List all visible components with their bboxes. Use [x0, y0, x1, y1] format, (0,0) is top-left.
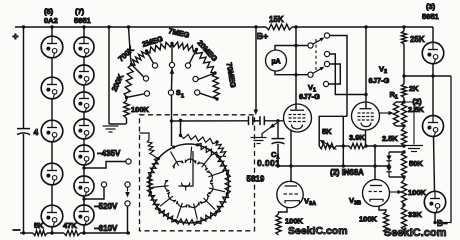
resistor 33K [401, 206, 406, 230]
tube 0A2 #3 [41, 120, 63, 142]
series capacitor 2 [259, 116, 261, 125]
anode cup inside 5819 [182, 183, 190, 187]
dashed enclosure 5819 [140, 115, 255, 231]
tube V1 6J7-G [284, 104, 312, 132]
resistor 5K bottom rail [33, 230, 47, 235]
tube 0A2 #4 [41, 163, 63, 185]
svg-text:33K: 33K [408, 210, 422, 219]
resistor 2MEG [147, 42, 173, 53]
resistor 2.5K lower [401, 128, 406, 146]
svg-text:100K: 100K [131, 105, 150, 114]
tube 5651 #6 [74, 176, 94, 196]
wire rail corner down [432, 27, 434, 42]
svg-text:4: 4 [34, 127, 39, 137]
resistor 50K [401, 152, 406, 177]
switch S1 wiper [171, 44, 173, 63]
tube 5651 right #2 [423, 116, 444, 137]
svg-text:SeekIC.com: SeekIC.com [384, 227, 447, 239]
svg-text:5651: 5651 [74, 16, 91, 25]
tube 5651 right #1 [422, 42, 444, 64]
svg-text:0A2: 0A2 [44, 16, 58, 25]
resistor 3.9K [349, 143, 365, 148]
svg-text:47K: 47K [63, 221, 77, 230]
wire right edge [435, 76, 451, 223]
ground [103, 125, 119, 127]
tube V2 6J7-G [352, 102, 380, 130]
photomultiplier 5819 envelope [150, 144, 229, 223]
fan node dots [125, 96, 128, 99]
svg-text:50K: 50K [409, 159, 423, 168]
tube 5651 #4 [74, 119, 94, 139]
svg-text:25K: 25K [410, 35, 425, 44]
minus terminal [13, 229, 21, 231]
wire bracket to 5K pot [319, 116, 347, 146]
wire left rail [23, 27, 25, 128]
resistor 47K bottom rail [64, 230, 80, 235]
wire bottom rail [20, 232, 33, 234]
wire to ground stem [404, 102, 414, 145]
pin dots on 5819 [157, 157, 160, 160]
svg-text:1: 1 [181, 94, 184, 100]
ground on anode line [262, 131, 266, 138]
resistor 100K input [124, 101, 130, 119]
tube V3B [363, 180, 390, 207]
5K wiper arrow [322, 141, 337, 150]
resistor 200K [124, 65, 133, 98]
resistor 2.5K upper [401, 102, 406, 126]
resistor 100K V3A [276, 214, 281, 235]
svg-text:5651: 5651 [422, 12, 439, 21]
wire 50K top [389, 151, 404, 153]
svg-text:5819: 5819 [247, 175, 265, 184]
svg-text:(7): (7) [75, 7, 85, 16]
meter leads [275, 46, 308, 51]
capacitor 4 [17, 128, 30, 130]
wire S1 drop into 5819 [171, 121, 173, 146]
tube 5651 #2 [74, 65, 94, 85]
wire rail to fan [129, 27, 131, 58]
svg-text:µA: µA [271, 59, 280, 66]
switch S2 pole 2 [308, 72, 313, 77]
tube 5651 #3 [74, 92, 94, 112]
svg-text:5K: 5K [322, 127, 332, 136]
anode lead inside 5819 [179, 151, 194, 186]
tube 0A2 #1 [41, 36, 63, 58]
node -520V tap [82, 197, 85, 200]
jack terminal pair to divider [125, 182, 130, 187]
100K wiper arrow [390, 191, 400, 193]
svg-text:6J7-G: 6J7-G [299, 92, 320, 101]
node dots on top rail [22, 25, 25, 28]
node -435V tap [82, 166, 85, 169]
switch S2 link [315, 39, 317, 70]
svg-text:100K: 100K [408, 188, 427, 197]
svg-text:SeekIC.com: SeekIC.com [288, 225, 348, 237]
wire B+ to photocathode region [255, 27, 257, 110]
wire grid bus [278, 165, 389, 167]
meter uA [266, 50, 287, 71]
tube 5651 #1 [74, 37, 94, 57]
tube 5651 #7 [74, 205, 94, 225]
switch S1 contacts and spokes [127, 94, 145, 98]
svg-text:3.9K: 3.9K [349, 133, 365, 142]
svg-text:15K: 15K [269, 15, 284, 24]
svg-text:B+: B+ [257, 31, 268, 41]
resistor 2K [401, 84, 406, 98]
tube 0A2 #2 [41, 77, 63, 99]
tube V3A [277, 181, 303, 207]
resistor 15K in top rail [266, 24, 292, 30]
wire top rail left [15, 26, 266, 28]
resistor 70MEG [212, 73, 219, 99]
resistor 700K [132, 51, 147, 65]
tube 5651 right #3 [424, 191, 445, 212]
svg-text:(5): (5) [44, 7, 54, 16]
arrow to ground on anode line [266, 122, 278, 131]
svg-text:(3): (3) [426, 2, 436, 11]
wire ground drop [108, 27, 110, 124]
svg-text:−610V: −610V [94, 224, 118, 233]
wire throw2 to V2 plate node [330, 54, 366, 95]
svg-text:2K: 2K [409, 84, 419, 93]
R1 wiper arrow [379, 112, 391, 114]
diodes (2) 1N68A [388, 152, 390, 156]
wire S1 to anode line [171, 95, 173, 121]
resistor 7MEG [172, 42, 197, 52]
wire anode to V1 grid [170, 119, 173, 122]
feedthrough wire left of box [140, 133, 150, 140]
ground near 2.5K [405, 145, 423, 147]
tube 5651 #5 [74, 145, 94, 165]
wire top rail right [292, 26, 433, 28]
switch S2 pole 1 [308, 43, 313, 48]
switch S2 throw wires [330, 36, 347, 117]
series capacitor [248, 116, 250, 125]
pot 5K [319, 143, 336, 149]
svg-text:2.5K: 2.5K [382, 134, 398, 143]
svg-text:(2) IN68A: (2) IN68A [330, 168, 364, 177]
svg-text:6J7-G: 6J7-G [369, 76, 390, 85]
svg-text:−520V: −520V [94, 202, 118, 211]
wire jack to bottom rail [127, 206, 129, 233]
svg-text:2.5K: 2.5K [408, 105, 424, 114]
dynodes inside 5819 [171, 151, 179, 165]
resistor 20MEG [196, 50, 215, 74]
svg-text:100K: 100K [359, 215, 378, 224]
resistor 100K V3B [383, 212, 388, 234]
capacitor C1 [277, 121, 279, 139]
wire throw3-throw4 short [329, 64, 341, 84]
wires 5651 chain [83, 27, 85, 37]
svg-text:−435V: −435V [97, 149, 121, 158]
anode load resistors inside box [180, 121, 182, 136]
wires 0A2 chain [51, 27, 53, 36]
svg-text:+: + [13, 32, 19, 43]
pot 100K [401, 180, 406, 204]
divider resistors around 5819 [148, 158, 158, 176]
resistor 25K [401, 31, 406, 44]
tube 0A2 #5 [41, 205, 63, 227]
wire 25K to tubes [404, 75, 451, 77]
wire bracket to cathode bus [342, 116, 344, 166]
